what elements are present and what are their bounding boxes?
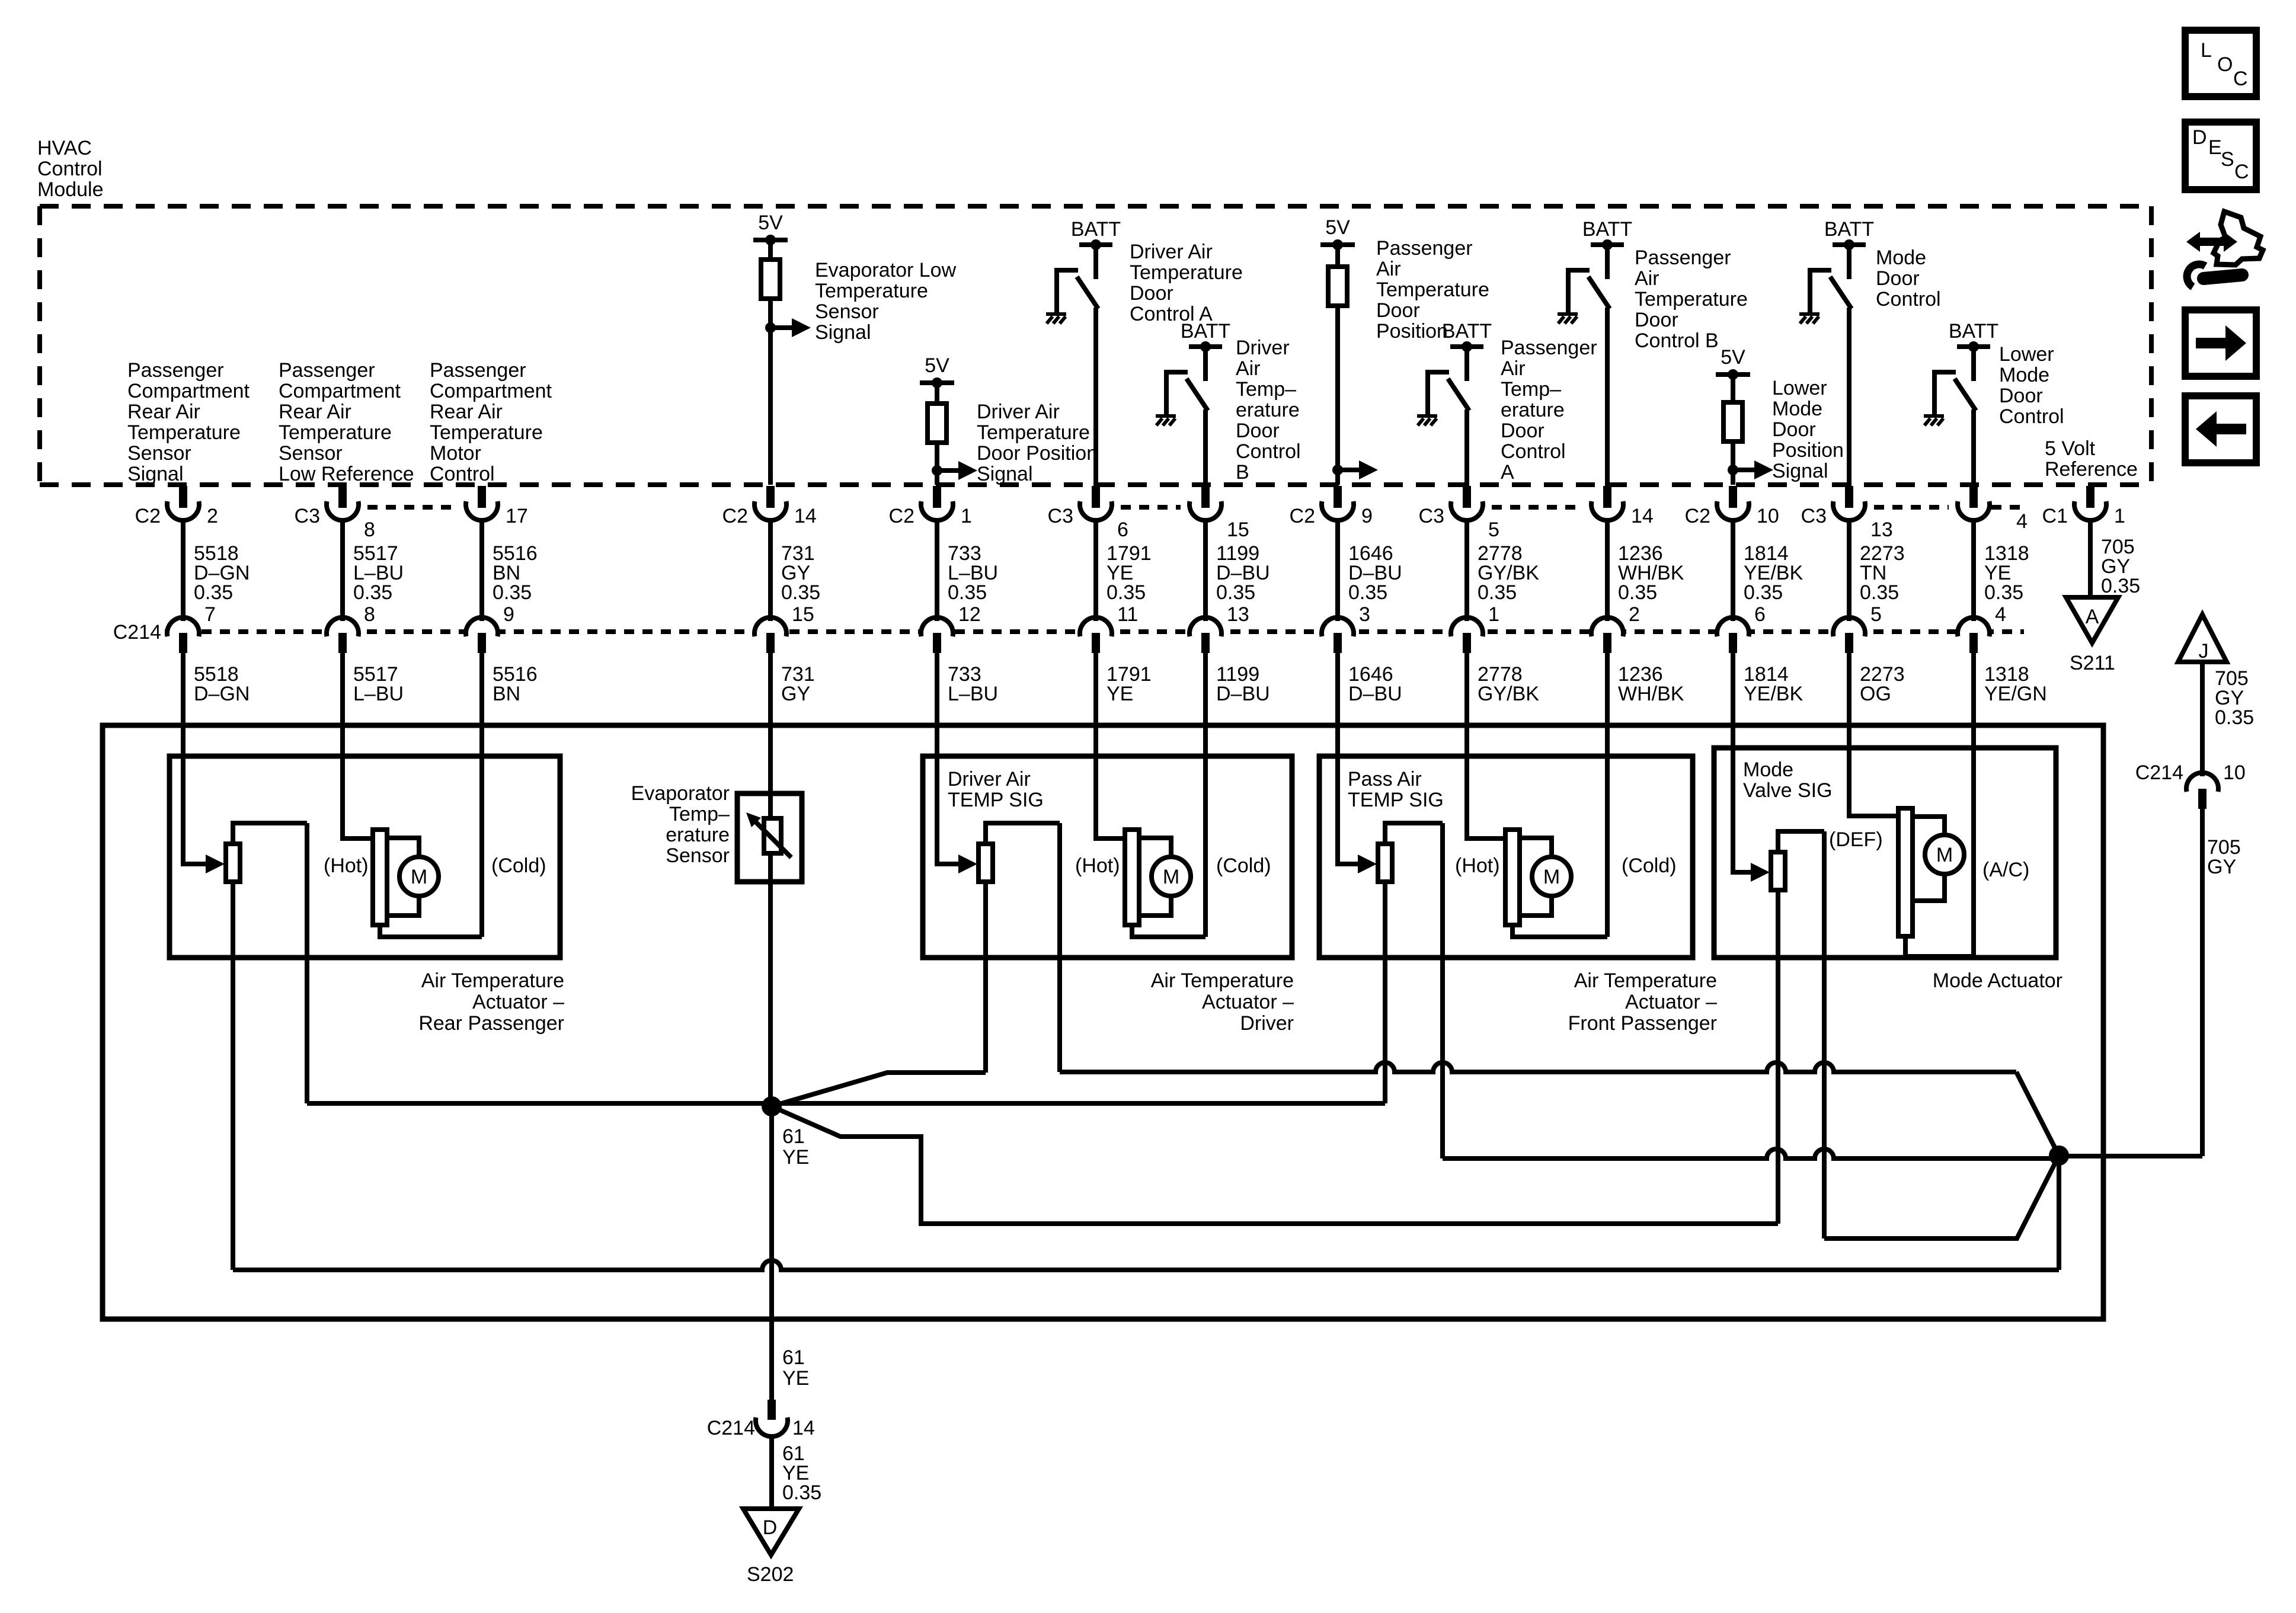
svg-text:0.35: 0.35	[1984, 581, 2023, 604]
svg-text:Driver Air: Driver Air	[948, 768, 1031, 791]
svg-text:8: 8	[364, 603, 375, 626]
svg-text:Lower: Lower	[1999, 343, 2054, 366]
svg-text:Air Temperature: Air Temperature	[421, 969, 564, 992]
svg-text:10: 10	[1757, 505, 1779, 527]
svg-text:(Cold): (Cold)	[1622, 854, 1677, 877]
svg-text:0.35: 0.35	[1216, 581, 1255, 604]
svg-text:TEMP SIG: TEMP SIG	[948, 789, 1044, 811]
svg-text:Mode: Mode	[1876, 247, 1926, 269]
svg-text:5V: 5V	[1721, 346, 1745, 369]
svg-text:Low Reference: Low Reference	[279, 463, 414, 485]
svg-text:Door: Door	[1376, 299, 1420, 322]
svg-text:WH/BK: WH/BK	[1618, 683, 1684, 705]
svg-text:TEMP SIG: TEMP SIG	[1348, 789, 1444, 811]
svg-text:(Hot): (Hot)	[324, 854, 369, 877]
svg-text:GY: GY	[781, 683, 810, 705]
svg-text:Door: Door	[1236, 420, 1280, 442]
svg-text:Mode: Mode	[1743, 759, 1793, 781]
svg-text:12: 12	[958, 603, 981, 626]
svg-text:Passenger: Passenger	[430, 359, 526, 382]
svg-text:2: 2	[1629, 603, 1640, 626]
svg-text:Mode Actuator: Mode Actuator	[1933, 969, 2062, 992]
svg-text:Driver Air: Driver Air	[977, 401, 1060, 423]
svg-text:Passenger: Passenger	[1635, 247, 1731, 269]
svg-text:10: 10	[2223, 761, 2246, 784]
svg-text:C2: C2	[1290, 505, 1315, 527]
svg-text:C3: C3	[295, 505, 320, 527]
svg-text:Rear Air: Rear Air	[279, 401, 351, 423]
svg-text:6: 6	[1117, 519, 1128, 541]
svg-text:D: D	[2192, 126, 2207, 149]
svg-text:BATT: BATT	[1442, 320, 1492, 343]
svg-text:0.35: 0.35	[782, 1481, 821, 1504]
svg-text:C214: C214	[707, 1417, 755, 1439]
svg-text:Door: Door	[1772, 418, 1816, 441]
svg-text:C3: C3	[1801, 505, 1827, 527]
svg-text:GY/BK: GY/BK	[1478, 683, 1539, 705]
svg-text:C: C	[2234, 161, 2249, 183]
svg-text:Signal: Signal	[1772, 460, 1828, 482]
svg-text:(Cold): (Cold)	[491, 854, 546, 877]
svg-text:Temperature: Temperature	[1635, 288, 1748, 311]
svg-text:YE: YE	[782, 1146, 809, 1169]
svg-text:C2: C2	[722, 505, 748, 527]
svg-text:erature: erature	[1236, 399, 1300, 421]
svg-text:Temperature: Temperature	[430, 421, 543, 444]
svg-text:0.35: 0.35	[948, 581, 987, 604]
svg-text:Passenger: Passenger	[1501, 337, 1597, 359]
svg-text:1: 1	[1488, 603, 1499, 626]
svg-text:Passenger: Passenger	[1376, 237, 1473, 260]
svg-text:BN: BN	[493, 683, 520, 705]
svg-text:YE: YE	[782, 1367, 809, 1390]
svg-text:BATT: BATT	[1181, 320, 1230, 343]
svg-text:Control: Control	[1876, 288, 1941, 311]
svg-text:L–BU: L–BU	[948, 683, 998, 705]
svg-text:17: 17	[506, 505, 528, 527]
svg-text:0.35: 0.35	[2215, 706, 2254, 729]
svg-text:(DEF): (DEF)	[1829, 828, 1883, 851]
svg-text:7: 7	[204, 603, 216, 626]
svg-text:BATT: BATT	[1071, 218, 1121, 241]
svg-text:Passenger: Passenger	[279, 359, 375, 382]
svg-text:0.35: 0.35	[353, 581, 392, 604]
svg-text:Evaporator: Evaporator	[631, 782, 730, 805]
svg-text:Air: Air	[1376, 258, 1401, 280]
svg-text:Air: Air	[1236, 357, 1261, 380]
svg-text:Driver: Driver	[1236, 337, 1290, 359]
svg-text:5: 5	[1488, 519, 1499, 541]
svg-text:B: B	[1236, 461, 1249, 484]
svg-text:M: M	[1936, 844, 1953, 866]
svg-text:0.35: 0.35	[781, 581, 820, 604]
svg-text:M: M	[411, 866, 427, 888]
svg-text:Lower: Lower	[1772, 377, 1827, 399]
svg-text:Position: Position	[1772, 439, 1844, 462]
svg-text:C214: C214	[2135, 761, 2183, 784]
svg-text:M: M	[1543, 866, 1560, 888]
svg-text:1: 1	[961, 505, 972, 527]
svg-text:BATT: BATT	[1824, 218, 1874, 241]
svg-text:Temp–: Temp–	[1501, 378, 1561, 401]
svg-text:C2: C2	[135, 505, 161, 527]
svg-text:Door: Door	[1999, 385, 2043, 407]
svg-text:Driver Air: Driver Air	[1130, 241, 1213, 263]
svg-text:A: A	[2086, 606, 2099, 628]
svg-text:0.35: 0.35	[1478, 581, 1517, 604]
svg-text:5V: 5V	[1325, 216, 1350, 239]
svg-text:Signal: Signal	[815, 321, 871, 344]
svg-text:Actuator –: Actuator –	[1202, 991, 1294, 1013]
svg-text:Temperature: Temperature	[1376, 279, 1489, 301]
svg-text:O: O	[2217, 53, 2233, 76]
svg-text:Sensor: Sensor	[815, 300, 879, 323]
svg-text:BATT: BATT	[1949, 320, 1998, 343]
svg-text:5: 5	[1870, 603, 1882, 626]
svg-text:Compartment: Compartment	[279, 380, 401, 402]
svg-text:Door: Door	[1501, 420, 1544, 442]
svg-text:Door: Door	[1130, 282, 1173, 305]
svg-text:Control: Control	[430, 463, 495, 485]
svg-text:Mode: Mode	[1772, 398, 1822, 420]
svg-text:Position: Position	[1376, 320, 1448, 343]
svg-text:(Cold): (Cold)	[1216, 854, 1271, 877]
svg-text:Module: Module	[37, 178, 104, 201]
svg-text:D–GN: D–GN	[194, 683, 250, 705]
svg-text:Door: Door	[1876, 267, 1920, 290]
svg-text:Evaporator Low: Evaporator Low	[815, 259, 957, 281]
svg-text:BATT: BATT	[1582, 218, 1632, 241]
svg-text:Signal: Signal	[977, 463, 1033, 485]
svg-text:YE/GN: YE/GN	[1984, 683, 2047, 705]
svg-text:A: A	[1501, 461, 1514, 484]
svg-text:Front Passenger: Front Passenger	[1568, 1012, 1717, 1035]
svg-text:J: J	[2199, 640, 2209, 663]
svg-text:9: 9	[1361, 505, 1373, 527]
svg-text:0.35: 0.35	[1744, 581, 1783, 604]
svg-text:Temperature: Temperature	[127, 421, 241, 444]
svg-text:C214: C214	[113, 621, 161, 644]
svg-text:1: 1	[2114, 505, 2125, 527]
svg-text:C3: C3	[1048, 505, 1073, 527]
svg-text:Signal: Signal	[127, 463, 184, 485]
svg-text:Actuator –: Actuator –	[1625, 991, 1717, 1013]
svg-text:5V: 5V	[758, 212, 783, 234]
svg-text:Control B: Control B	[1635, 329, 1719, 352]
svg-text:5 Volt: 5 Volt	[2045, 437, 2096, 460]
svg-text:13: 13	[1870, 519, 1893, 541]
svg-text:C2: C2	[889, 505, 914, 527]
svg-text:0.35: 0.35	[493, 581, 532, 604]
svg-text:Sensor: Sensor	[127, 442, 191, 465]
svg-text:6: 6	[1754, 603, 1766, 626]
svg-text:Valve SIG: Valve SIG	[1743, 779, 1833, 802]
svg-text:Temperature: Temperature	[815, 280, 928, 302]
svg-text:0.35: 0.35	[2101, 575, 2140, 597]
svg-text:15: 15	[792, 603, 814, 626]
svg-text:C3: C3	[1419, 505, 1444, 527]
svg-text:erature: erature	[1501, 399, 1565, 421]
svg-text:3: 3	[1359, 603, 1370, 626]
svg-text:E: E	[2208, 136, 2222, 159]
svg-text:Motor: Motor	[430, 442, 481, 465]
svg-text:S202: S202	[747, 1563, 794, 1586]
svg-text:61: 61	[782, 1125, 805, 1148]
svg-text:Door: Door	[1635, 309, 1678, 331]
svg-text:D: D	[763, 1516, 778, 1539]
svg-text:(Hot): (Hot)	[1455, 854, 1500, 877]
svg-text:Control: Control	[1501, 440, 1566, 463]
svg-text:Rear Passenger: Rear Passenger	[418, 1012, 564, 1035]
svg-text:Control: Control	[37, 158, 103, 180]
svg-text:Mode: Mode	[1999, 364, 2049, 386]
svg-text:C: C	[2233, 68, 2248, 90]
svg-text:Control: Control	[1236, 440, 1301, 463]
svg-text:Rear Air: Rear Air	[127, 401, 200, 423]
svg-text:L–BU: L–BU	[353, 683, 404, 705]
svg-text:L: L	[2201, 39, 2212, 62]
svg-text:15: 15	[1227, 519, 1249, 541]
svg-text:4: 4	[2016, 510, 2028, 533]
svg-text:C1: C1	[2042, 505, 2068, 527]
svg-text:D–BU: D–BU	[1216, 683, 1270, 705]
svg-text:0.35: 0.35	[1860, 581, 1899, 604]
svg-text:Driver: Driver	[1240, 1012, 1294, 1035]
svg-text:Air: Air	[1635, 267, 1659, 290]
svg-text:Pass Air: Pass Air	[1348, 768, 1422, 791]
svg-text:2: 2	[207, 505, 218, 527]
svg-text:0.35: 0.35	[1348, 581, 1387, 604]
svg-text:Temperature: Temperature	[1130, 261, 1243, 284]
svg-text:Air Temperature: Air Temperature	[1151, 969, 1294, 992]
svg-text:(Hot): (Hot)	[1075, 854, 1120, 877]
svg-text:Compartment: Compartment	[127, 380, 250, 402]
svg-text:Control: Control	[1999, 405, 2064, 428]
svg-text:13: 13	[1227, 603, 1249, 626]
svg-text:Temp–: Temp–	[1236, 378, 1296, 401]
svg-text:Reference: Reference	[2045, 458, 2138, 481]
svg-text:D–BU: D–BU	[1348, 683, 1402, 705]
svg-text:4: 4	[1995, 603, 2006, 626]
svg-text:8: 8	[364, 519, 375, 541]
svg-text:Actuator –: Actuator –	[472, 991, 564, 1013]
svg-text:11: 11	[1117, 603, 1138, 626]
svg-text:61: 61	[782, 1346, 805, 1369]
svg-text:C2: C2	[1685, 505, 1710, 527]
svg-text:14: 14	[792, 1417, 815, 1439]
svg-text:Sensor: Sensor	[666, 844, 730, 867]
svg-text:YE/BK: YE/BK	[1744, 683, 1803, 705]
svg-text:Sensor: Sensor	[279, 442, 343, 465]
svg-text:Air: Air	[1501, 357, 1526, 380]
svg-text:0.35: 0.35	[1107, 581, 1146, 604]
svg-text:Passenger: Passenger	[127, 359, 224, 382]
svg-text:S: S	[2221, 148, 2234, 171]
svg-text:OG: OG	[1860, 683, 1891, 705]
svg-text:S211: S211	[2070, 652, 2115, 674]
svg-text:0.35: 0.35	[194, 581, 233, 604]
svg-text:Air Temperature: Air Temperature	[1574, 969, 1717, 992]
svg-text:9: 9	[503, 603, 514, 626]
svg-text:Door Position: Door Position	[977, 442, 1098, 465]
svg-text:Compartment: Compartment	[430, 380, 552, 402]
svg-text:HVAC: HVAC	[37, 137, 92, 159]
svg-text:5V: 5V	[925, 354, 949, 377]
svg-text:Temp–: Temp–	[669, 803, 730, 825]
svg-text:erature: erature	[666, 824, 730, 846]
svg-text:M: M	[1163, 866, 1179, 888]
svg-text:YE: YE	[1107, 683, 1133, 705]
svg-text:GY: GY	[2207, 856, 2236, 878]
svg-text:Temperature: Temperature	[977, 421, 1090, 444]
svg-text:Temperature: Temperature	[279, 421, 392, 444]
svg-text:14: 14	[1631, 505, 1654, 527]
svg-text:0.35: 0.35	[1618, 581, 1657, 604]
svg-text:Rear Air: Rear Air	[430, 401, 503, 423]
svg-text:14: 14	[794, 505, 817, 527]
svg-text:(A/C): (A/C)	[1982, 859, 2029, 881]
